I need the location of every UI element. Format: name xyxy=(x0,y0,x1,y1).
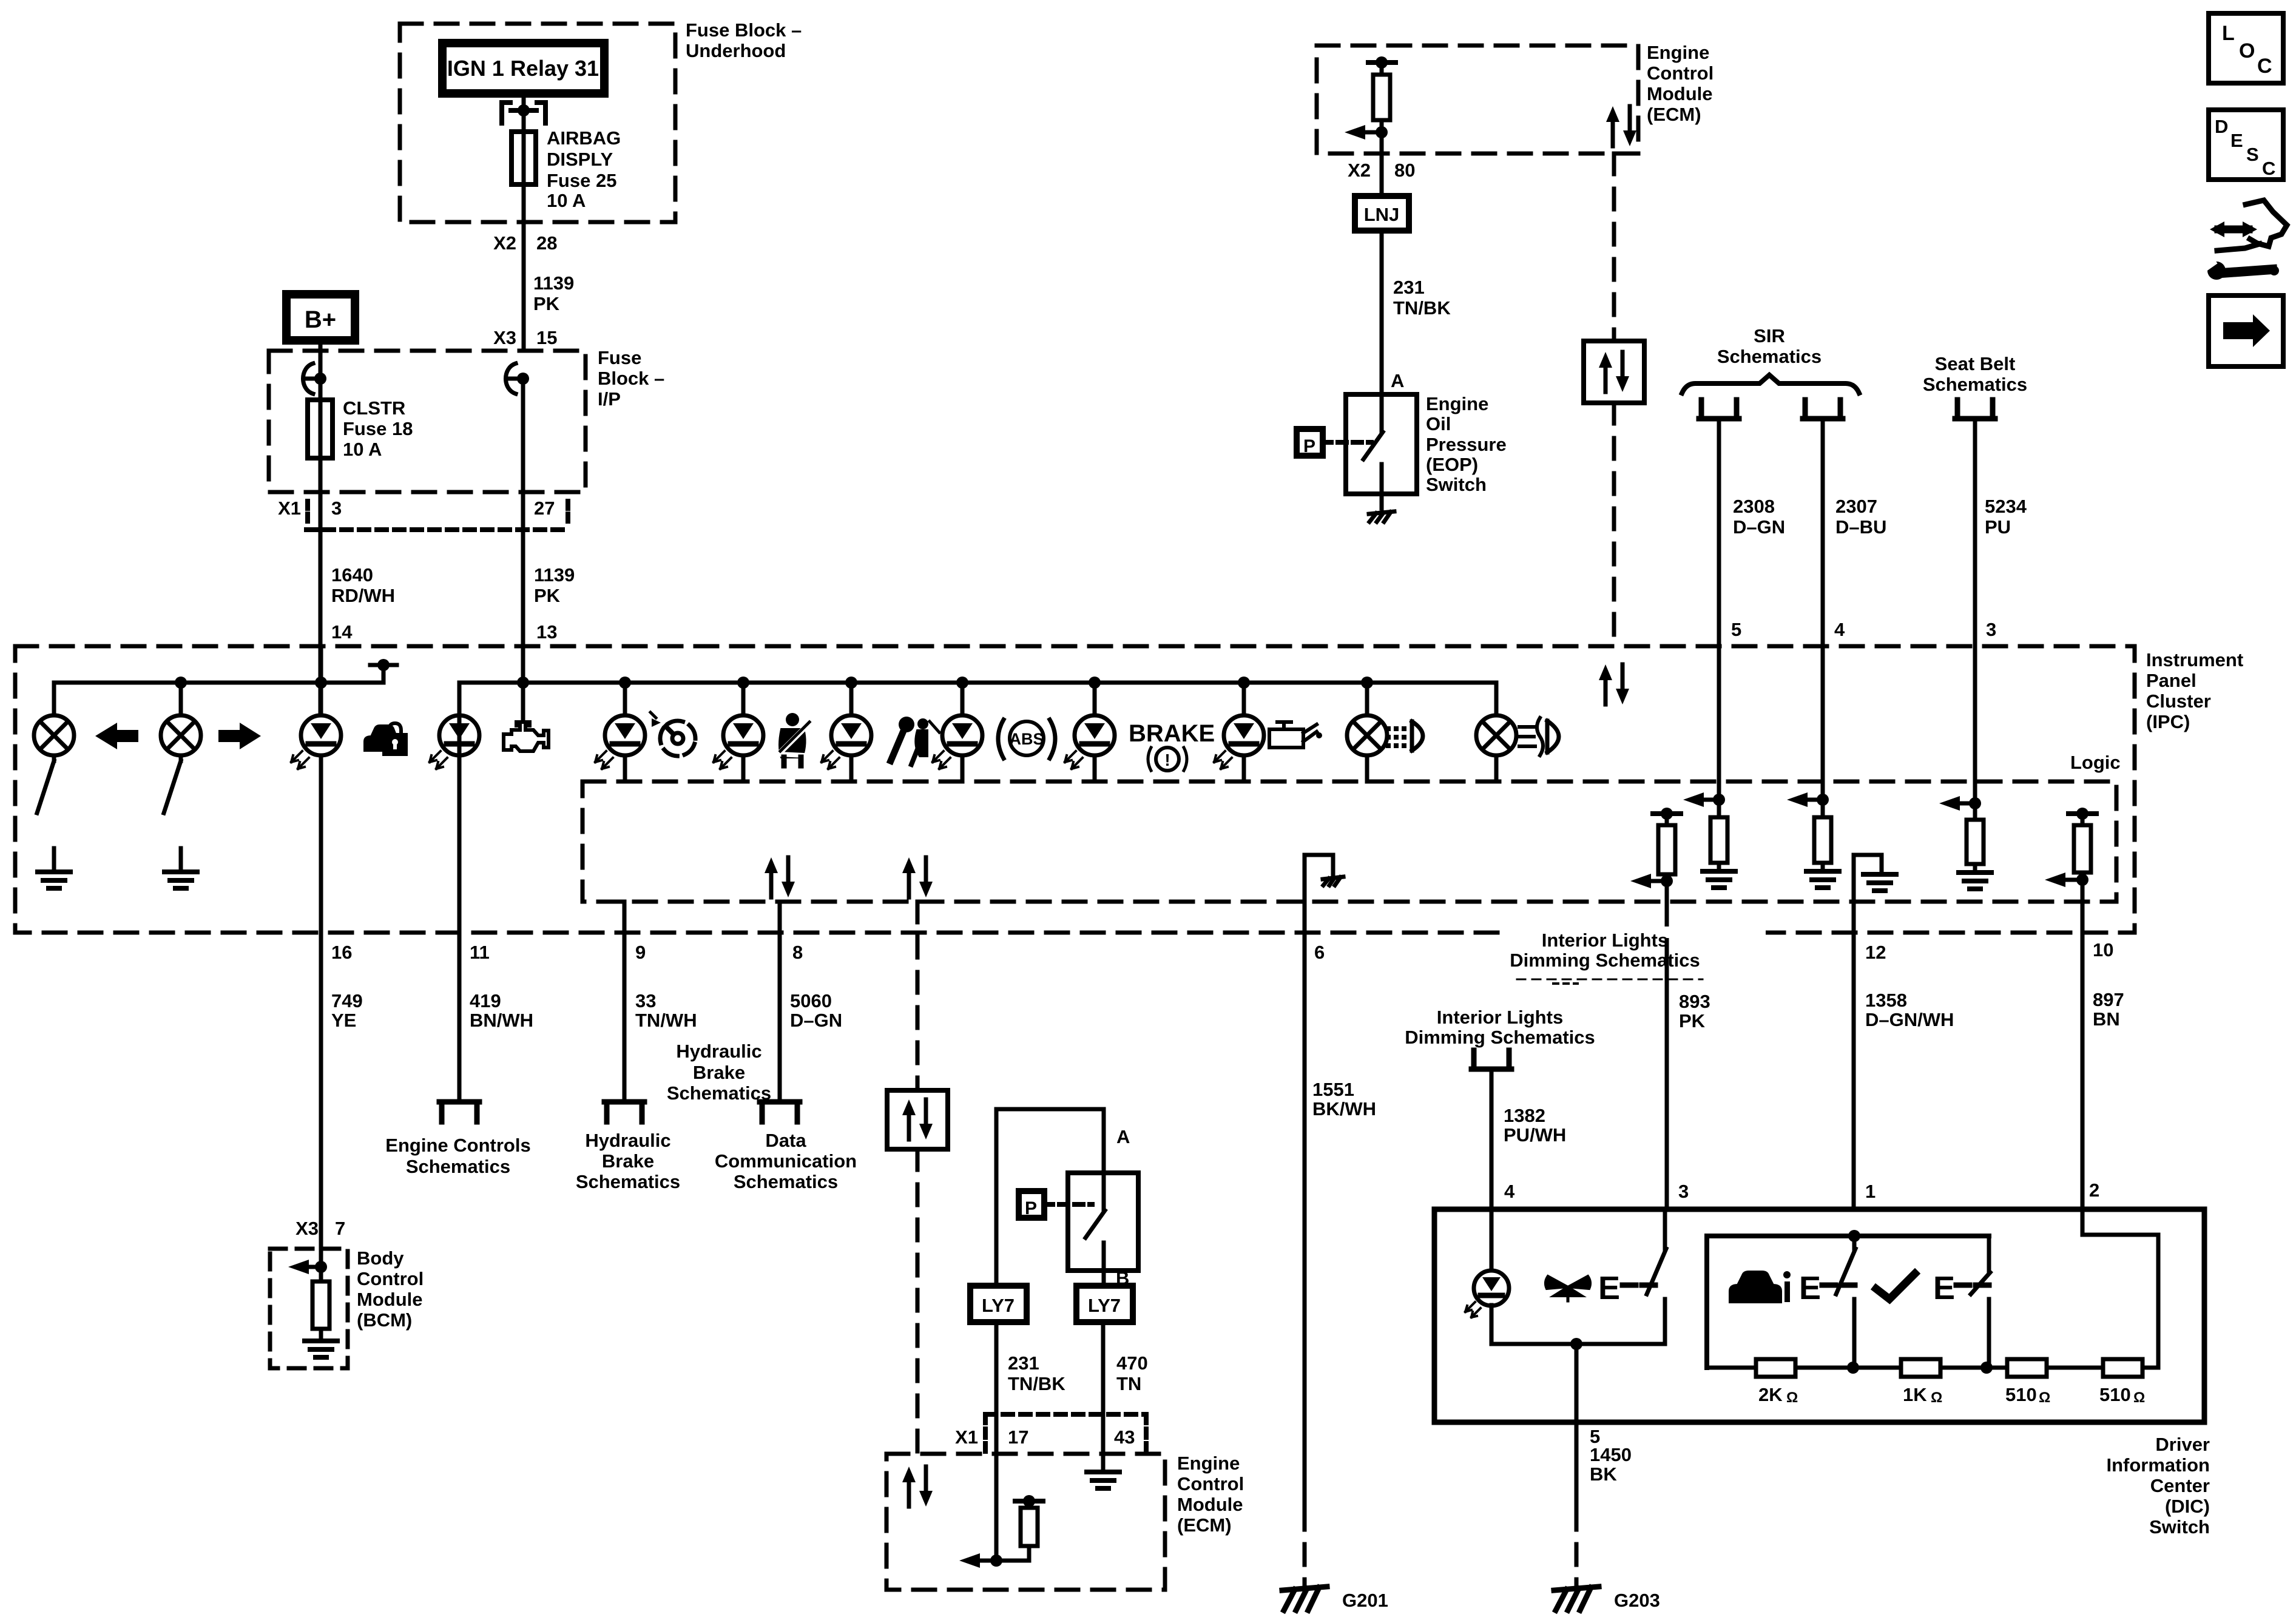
resistor 2308 xyxy=(1710,800,1727,871)
check engine icon xyxy=(504,722,549,751)
svg-text:15: 15 xyxy=(536,327,557,348)
brake warning icon xyxy=(1148,748,1187,771)
wire 9 exit xyxy=(623,902,627,1099)
svg-text:Fuse 18: Fuse 18 xyxy=(343,418,413,439)
DIC switch 1 xyxy=(1647,1209,1666,1344)
svg-text:O: O xyxy=(2239,39,2255,62)
wire label 470 TN xyxy=(1116,1352,1148,1394)
check icon xyxy=(1876,1274,1915,1299)
svg-text:33: 33 xyxy=(635,990,656,1011)
svg-text:11: 11 xyxy=(470,942,490,963)
svg-text:B+: B+ xyxy=(305,306,336,333)
source bracket 1382 xyxy=(1471,1050,1511,1069)
engine control module ECM (dashed box) xyxy=(1317,46,1638,154)
svg-text:X2: X2 xyxy=(493,232,516,254)
wire 2308 D-GN xyxy=(1717,419,1721,646)
wire 2307 logic drop xyxy=(1821,646,1825,800)
wire label 2307 D-BU xyxy=(1835,496,1886,538)
pin 6 label xyxy=(1314,942,1325,963)
wire label 1640 RD/WH xyxy=(331,564,395,606)
svg-text:419: 419 xyxy=(470,990,501,1011)
svg-text:Fuse Block –: Fuse Block – xyxy=(686,19,802,41)
LED6 indicator xyxy=(933,715,982,769)
hand wrench icon xyxy=(2201,200,2287,280)
wire 231 TN/BK lower xyxy=(994,1322,999,1561)
fuse 25 label xyxy=(547,127,621,211)
wire 5234 PU xyxy=(1973,419,1977,646)
svg-text:L: L xyxy=(2222,22,2235,45)
svg-text:4: 4 xyxy=(1834,619,1845,640)
svg-text:4: 4 xyxy=(1504,1181,1515,1202)
wire label 231 TN/BK xyxy=(1393,277,1451,319)
svg-text:Instrument: Instrument xyxy=(2146,649,2243,670)
wire label 893 PK xyxy=(1679,991,1710,1031)
pin 13 label xyxy=(536,621,557,643)
connector X1 labels xyxy=(278,498,555,519)
lamp L2 ground xyxy=(164,848,197,888)
svg-text:10: 10 xyxy=(2093,939,2113,960)
svg-text:DISPLY: DISPLY xyxy=(547,149,613,170)
resistor 510b label xyxy=(2099,1384,2145,1406)
svg-text:Body: Body xyxy=(357,1247,404,1269)
svg-text:Center: Center xyxy=(2150,1475,2210,1496)
EOP switch 2 box xyxy=(1068,1173,1138,1271)
svg-text:28: 28 xyxy=(536,232,557,254)
wire LED8 xyxy=(1242,683,1246,781)
svg-text:6: 6 xyxy=(1314,942,1325,963)
svg-text:E: E xyxy=(1799,1270,1821,1306)
svg-text:AIRBAG: AIRBAG xyxy=(547,127,621,149)
connector X3 pin 15 labels xyxy=(493,327,557,348)
svg-text:Engine Controls: Engine Controls xyxy=(385,1135,530,1156)
svg-text:2: 2 xyxy=(2089,1180,2099,1201)
wire 231 TN/BK LNJ to EOP xyxy=(1380,231,1384,432)
svg-text:Module: Module xyxy=(1647,83,1713,104)
pin 5 label xyxy=(1731,619,1741,640)
svg-text:43: 43 xyxy=(1114,1426,1135,1448)
resistor 510b xyxy=(2103,1359,2142,1377)
DIC resistor bus xyxy=(1707,1362,2158,1374)
connector X2 pin 28 labels xyxy=(493,232,557,254)
wire 8 exit xyxy=(778,902,782,1099)
svg-text:BK/WH: BK/WH xyxy=(1312,1098,1376,1119)
ground hook wire 6 xyxy=(1305,855,1343,902)
svg-text:Switch: Switch xyxy=(2149,1516,2210,1538)
lamp L1 wire xyxy=(52,683,56,715)
updown arrows at wire 8 xyxy=(765,857,795,897)
svg-text:Control: Control xyxy=(1177,1473,1244,1494)
svg-text:Engine: Engine xyxy=(1647,42,1709,63)
svg-text:IGN 1 Relay 31: IGN 1 Relay 31 xyxy=(447,56,599,81)
driver information center DIC box xyxy=(1434,1209,2204,1422)
resistor 2307 arrow xyxy=(1787,792,1829,807)
svg-text:Engine: Engine xyxy=(1426,393,1488,414)
wire label 749 YE xyxy=(331,990,363,1031)
erased text artifact xyxy=(1517,979,1703,984)
svg-text:(ECM): (ECM) xyxy=(1647,104,1701,125)
BCM resistor xyxy=(312,1267,329,1341)
svg-text:BRAKE: BRAKE xyxy=(1129,720,1215,747)
wire 1 junction xyxy=(1848,1230,1860,1242)
connector X2 pin 80 labels xyxy=(1348,160,1415,181)
car info icon xyxy=(1730,1271,1791,1302)
svg-text:17: 17 xyxy=(1008,1426,1028,1448)
svg-text:2K: 2K xyxy=(1758,1384,1783,1405)
EOP switch label xyxy=(1426,393,1507,495)
svg-text:E: E xyxy=(1598,1270,1620,1306)
svg-text:2307: 2307 xyxy=(1835,496,1877,517)
ECM label top xyxy=(1647,42,1714,125)
DIC switch 2 xyxy=(1836,1236,1855,1368)
svg-text:Communication: Communication xyxy=(715,1150,857,1172)
DIC inner box xyxy=(1707,1236,1989,1368)
svg-text:510: 510 xyxy=(2005,1384,2037,1405)
engine controls schematics label xyxy=(385,1135,530,1177)
wire 470 TN xyxy=(1101,1322,1106,1470)
svg-text:Control: Control xyxy=(357,1268,424,1289)
pin A label xyxy=(1391,370,1404,391)
svg-text:Schematics: Schematics xyxy=(406,1156,510,1177)
resistor 1K xyxy=(1901,1359,1940,1377)
P dashed link 2 xyxy=(1044,1202,1092,1207)
B+ power symbol xyxy=(286,294,355,340)
svg-text:Interior Lights: Interior Lights xyxy=(1542,930,1668,951)
wire 11 through LED2 xyxy=(458,683,462,933)
svg-text:LY7: LY7 xyxy=(1088,1295,1121,1316)
wire 5234 logic drop xyxy=(1973,646,1977,803)
svg-text:X2: X2 xyxy=(1348,160,1371,181)
fuse clip left xyxy=(303,363,327,394)
dashed wire logic to updown box2 xyxy=(916,902,920,1090)
fuse 18 label xyxy=(343,397,413,460)
wire bulb3 xyxy=(1365,683,1369,781)
svg-text:S: S xyxy=(2246,144,2259,165)
ground hook wire 12 xyxy=(1854,855,1896,902)
LED2 indicator xyxy=(430,715,479,769)
svg-text:749: 749 xyxy=(331,990,363,1011)
wire 13 into IPC xyxy=(521,646,525,683)
svg-text:Ω: Ω xyxy=(1931,1389,1942,1406)
svg-text:27: 27 xyxy=(534,498,555,519)
updown arrows box 2 xyxy=(887,1090,948,1149)
next arrow box xyxy=(2209,295,2283,366)
svg-text:Dimming Schematics: Dimming Schematics xyxy=(1510,950,1700,971)
svg-text:ABS: ABS xyxy=(1009,730,1044,748)
svg-text:(EOP): (EOP) xyxy=(1426,454,1478,475)
seat belt schematics label xyxy=(1923,353,2027,395)
svg-text:Schematics: Schematics xyxy=(734,1171,838,1192)
airbag icon xyxy=(891,717,939,765)
pin 9 label xyxy=(635,942,646,963)
SIR schematics label xyxy=(1717,325,1822,367)
EOP switch box xyxy=(1346,394,1417,494)
connector LY7 right xyxy=(1076,1286,1133,1322)
ground 2307 xyxy=(1806,871,1839,888)
wire bulb4 xyxy=(1494,683,1499,781)
high beam icon xyxy=(1386,721,1423,751)
svg-text:I/P: I/P xyxy=(598,388,621,410)
wire 897 BN xyxy=(2081,880,2085,1235)
svg-text:(BCM): (BCM) xyxy=(357,1309,412,1331)
svg-text:Ω: Ω xyxy=(2133,1389,2145,1406)
source bracket 2307 xyxy=(1803,400,1843,419)
svg-text:D–GN: D–GN xyxy=(1733,516,1785,538)
IPC right bus xyxy=(459,677,1496,689)
svg-text:1: 1 xyxy=(1865,1181,1876,1202)
fuse block - I/P (dashed box) xyxy=(269,351,586,492)
svg-text:G203: G203 xyxy=(1614,1590,1660,1611)
svg-text:1139: 1139 xyxy=(534,564,575,586)
wire 1139 PK fuse25 to IP fuse block xyxy=(522,184,526,351)
ECM2 ground 470 xyxy=(1087,1472,1119,1488)
svg-text:TN/WH: TN/WH xyxy=(635,1010,697,1031)
wire 5 down xyxy=(1575,1422,1579,1509)
wire label 1358 D-GN/WH xyxy=(1865,990,1954,1030)
ECM output arrow xyxy=(1345,125,1388,140)
ECM2 resistor rail xyxy=(1015,1495,1043,1508)
svg-text:PU/WH: PU/WH xyxy=(1504,1124,1566,1146)
fuse F25 AIRBAG DISPLY Fuse 25 10A xyxy=(512,132,536,184)
LED5 indicator xyxy=(822,715,871,769)
lamp L2 wire xyxy=(179,683,183,715)
wire relay to fuse 25 xyxy=(522,93,526,132)
wire label 1382 PU/WH xyxy=(1504,1105,1566,1146)
updown arrows in IPC xyxy=(1599,664,1629,704)
svg-text:Ω: Ω xyxy=(2039,1389,2050,1406)
ECM2 arrow xyxy=(959,1553,1029,1568)
ground G203 xyxy=(1554,1587,1599,1610)
wire 1640 RDWH fuse18 down xyxy=(319,458,323,718)
svg-text:Ω: Ω xyxy=(1786,1389,1798,1406)
resistor 2K label xyxy=(1758,1384,1798,1406)
wire LED6 xyxy=(961,683,965,781)
switch 1 E label xyxy=(1598,1270,1620,1306)
svg-text:Schematics: Schematics xyxy=(576,1171,680,1192)
svg-text:(ECM): (ECM) xyxy=(1177,1514,1232,1536)
source bracket 2308 xyxy=(1699,400,1739,419)
lamp L2 switch blade xyxy=(164,755,181,813)
wire label 1139 PK (lower) xyxy=(534,564,575,606)
svg-text:Information: Information xyxy=(2107,1454,2210,1476)
svg-text:3: 3 xyxy=(1986,619,1996,640)
svg-text:Schematics: Schematics xyxy=(1717,346,1822,367)
svg-text:Data: Data xyxy=(765,1130,806,1151)
svg-text:Hydraulic: Hydraulic xyxy=(676,1041,761,1062)
svg-text:Block –: Block – xyxy=(598,368,664,389)
wire 14 into IPC xyxy=(319,646,323,683)
pin 10 label xyxy=(2093,939,2113,960)
wire ECM to LNJ xyxy=(1380,132,1384,196)
fuse block underhood label xyxy=(686,19,802,61)
LED8 indicator xyxy=(1214,715,1264,769)
svg-text:Logic: Logic xyxy=(2070,752,2121,773)
wire 12 exit xyxy=(1852,902,1856,1209)
high beam bulb xyxy=(1347,715,1387,755)
wire label 5060 D-GN xyxy=(790,990,842,1031)
svg-text:3: 3 xyxy=(1678,1181,1689,1202)
wire label 1551 BK/WH xyxy=(1312,1079,1376,1119)
bus stub with cap xyxy=(370,659,397,683)
wire B+ to CLSTR fuse xyxy=(319,340,323,400)
data communication schematics label xyxy=(715,1130,857,1192)
destination bracket wire 11 xyxy=(439,1102,479,1122)
wire 1382 PU/WH xyxy=(1490,1069,1494,1271)
resistor 897 rail xyxy=(2068,808,2096,825)
splice bus under relay xyxy=(502,103,545,132)
wire label 2308 D-GN xyxy=(1733,496,1785,538)
wire EOP to ground xyxy=(1380,494,1384,508)
svg-text:2308: 2308 xyxy=(1733,496,1775,517)
fuse block - underhood (dashed box) xyxy=(400,24,675,222)
svg-text:16: 16 xyxy=(331,942,352,963)
BCM label xyxy=(357,1247,424,1331)
svg-text:Fuse 25: Fuse 25 xyxy=(547,170,616,191)
svg-text:1450: 1450 xyxy=(1590,1444,1632,1465)
seat belt icon xyxy=(779,713,809,766)
DIC switch 3 xyxy=(1971,1236,1990,1368)
connector X1 strip xyxy=(306,501,570,530)
destination bracket wire 9 xyxy=(604,1102,644,1122)
instrument panel cluster IPC (dashed box) xyxy=(15,646,2135,933)
svg-text:LY7: LY7 xyxy=(982,1295,1015,1316)
wire 1139 PK in IP block xyxy=(521,379,525,718)
svg-text:9: 9 xyxy=(635,942,646,963)
wire 2308 logic drop xyxy=(1717,646,1721,800)
svg-text:!: ! xyxy=(1164,751,1170,769)
svg-text:1640: 1640 xyxy=(331,564,373,586)
wire 11 exit xyxy=(458,933,462,1099)
svg-text:BN: BN xyxy=(2093,1008,2120,1030)
svg-text:Seat Belt: Seat Belt xyxy=(1935,353,2016,374)
IPC label xyxy=(2146,649,2243,732)
svg-text:5234: 5234 xyxy=(1985,496,2027,517)
resistor 893 xyxy=(1658,825,1675,874)
wire 9 LED3 xyxy=(623,683,627,781)
hydraulic brake schematics label (upper) xyxy=(667,1041,771,1104)
svg-text:1K: 1K xyxy=(1903,1384,1927,1405)
svg-text:E: E xyxy=(1933,1270,1955,1306)
switch 3 E dashes xyxy=(1956,1283,1989,1288)
svg-text:5: 5 xyxy=(1731,619,1741,640)
LED3 indicator xyxy=(595,715,645,769)
DIC label xyxy=(2107,1434,2210,1538)
lamp L1 bulb xyxy=(34,715,74,755)
chassis ground below EOP xyxy=(1369,511,1394,522)
pin 8 label xyxy=(792,942,803,963)
switch 2 E dashes xyxy=(1822,1283,1855,1288)
svg-text:Oil: Oil xyxy=(1426,413,1451,434)
svg-text:231: 231 xyxy=(1008,1352,1039,1374)
hydraulic brake schematics label (lower) xyxy=(576,1130,680,1192)
svg-text:Engine: Engine xyxy=(1177,1453,1240,1474)
svg-text:8: 8 xyxy=(792,942,803,963)
wire label 231 TN/BK lower xyxy=(1008,1352,1065,1394)
ECM internal rail cap xyxy=(1368,56,1396,69)
svg-text:5060: 5060 xyxy=(790,990,832,1011)
svg-text:Fuse: Fuse xyxy=(598,347,641,368)
dashed wire updown box to IPC xyxy=(1612,403,1616,646)
LOC nav box xyxy=(2209,13,2283,83)
fog lamp icon xyxy=(1519,718,1559,755)
IPC left bus xyxy=(54,677,383,689)
BCM arrow xyxy=(288,1260,327,1274)
pin 1 label (DIC) xyxy=(1865,1181,1876,1202)
svg-text:Module: Module xyxy=(1177,1494,1243,1515)
resistor 510a xyxy=(2007,1359,2047,1377)
svg-text:X3: X3 xyxy=(295,1218,319,1239)
switch 1 E dashes xyxy=(1622,1283,1655,1288)
svg-text:1382: 1382 xyxy=(1504,1105,1545,1126)
svg-text:10 A: 10 A xyxy=(547,190,586,211)
svg-text:G201: G201 xyxy=(1342,1590,1388,1611)
updown arrows box (serial data) xyxy=(1584,341,1644,403)
fuse F18 CLSTR Fuse 18 10A xyxy=(308,400,333,458)
switch 2 E label xyxy=(1799,1270,1821,1306)
junction 897 with arrow xyxy=(2045,873,2088,887)
LED4 indicator xyxy=(714,715,763,769)
svg-text:Module: Module xyxy=(357,1289,423,1310)
svg-text:(IPC): (IPC) xyxy=(2146,711,2190,732)
EOP switch blade xyxy=(1363,394,1383,494)
svg-text:12: 12 xyxy=(1865,942,1886,963)
pin 3 label (IPC) xyxy=(1986,619,1996,640)
EOP switch 2 blade xyxy=(1086,1173,1105,1271)
wire 2 path in DIC xyxy=(2082,933,2158,1368)
svg-text:PU: PU xyxy=(1985,516,2011,538)
svg-text:SIR: SIR xyxy=(1754,325,1785,346)
wire label 5234 PU xyxy=(1985,496,2027,538)
connector X3 pin 7 labels xyxy=(295,1218,345,1239)
svg-text:P: P xyxy=(1303,436,1315,456)
ground 2308 xyxy=(1703,871,1735,888)
wire A bend xyxy=(996,1109,1104,1286)
fuse clip right xyxy=(506,363,530,394)
svg-text:231: 231 xyxy=(1393,277,1425,298)
connector X1 ECM labels xyxy=(955,1426,1135,1448)
pin 5 label (DIC) xyxy=(1590,1426,1600,1447)
svg-text:470: 470 xyxy=(1116,1352,1148,1374)
svg-text:Schematics: Schematics xyxy=(1923,374,2027,395)
wire 16 to BCM xyxy=(319,933,323,1267)
svg-text:P: P xyxy=(1025,1198,1037,1218)
pin 12 label xyxy=(1865,942,1886,963)
svg-text:10 A: 10 A xyxy=(343,439,382,460)
svg-text:14: 14 xyxy=(331,621,353,643)
P pressure symbol 2 xyxy=(1019,1191,1044,1218)
resistor 5234 arrow xyxy=(1939,796,1981,811)
engine control module ECM2 (dashed box) xyxy=(886,1454,1165,1590)
svg-text:TN/BK: TN/BK xyxy=(1008,1373,1065,1394)
svg-text:E: E xyxy=(2230,130,2243,151)
svg-text:1139: 1139 xyxy=(533,272,574,294)
wire label 33 TN/WH xyxy=(635,990,697,1031)
P pressure symbol box xyxy=(1297,429,1323,456)
body control module BCM (dashed box) xyxy=(270,1249,348,1368)
connector X1 strip (ECM) xyxy=(985,1414,1146,1451)
svg-text:897: 897 xyxy=(2093,989,2124,1010)
pin 4 label xyxy=(1834,619,1845,640)
svg-text:Switch: Switch xyxy=(1426,474,1487,495)
wire label 1450 BK xyxy=(1590,1444,1632,1485)
resistor 2308 arrow xyxy=(1683,792,1725,807)
resistor 5234 xyxy=(1967,803,1984,873)
left turn arrow xyxy=(95,723,138,749)
wire 2307 D-BU xyxy=(1821,419,1825,646)
pin 3 label (DIC) xyxy=(1678,1181,1689,1202)
svg-text:Brake: Brake xyxy=(693,1062,745,1083)
pin 2 label (DIC) xyxy=(2089,1180,2099,1201)
svg-text:Control: Control xyxy=(1647,62,1714,84)
